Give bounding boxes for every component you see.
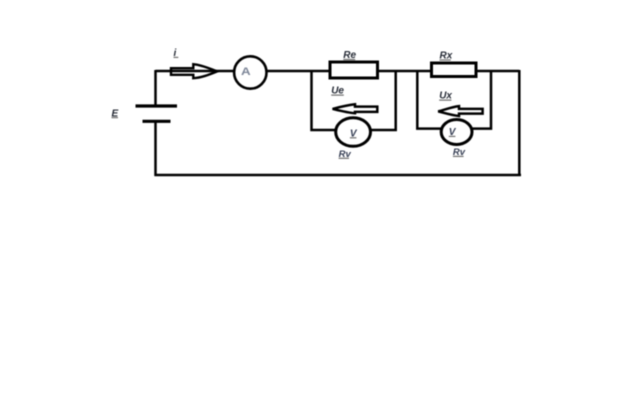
svg-text:A: A [241,65,251,78]
